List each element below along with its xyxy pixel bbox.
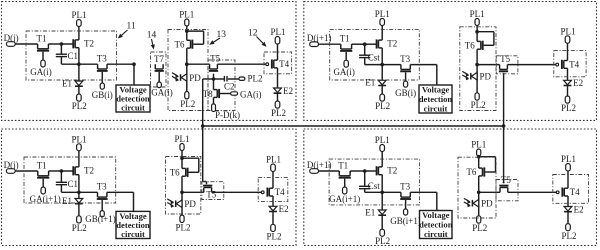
wire to voltage detection circuit <box>133 64 135 85</box>
wire <box>381 26 383 41</box>
wire rail from T5 to T4 gate <box>508 191 556 193</box>
terminal PL2 below E2 (Q1 top-left) <box>271 101 286 118</box>
svg-text:P-D(k): P-D(k) <box>215 110 240 120</box>
svg-text:PL2: PL2 <box>561 103 576 113</box>
terminal GA Q1 top-left <box>30 60 52 77</box>
terminal PL2 below E2 (Q4 bottom-right) <box>561 224 576 241</box>
terminal PL2 below PD (Q1 top-left) <box>180 92 195 109</box>
transistor T6 diode-connected (Q4 bottom-right) <box>466 157 495 193</box>
svg-text:circuit: circuit <box>424 103 448 113</box>
svg-text:GB(i+1): GB(i+1) <box>85 214 116 224</box>
wire <box>381 175 383 193</box>
dashed box T4 output unit (Q2 top-right) <box>554 51 586 77</box>
node D data input D(j+1) (Q4 bottom-right) <box>307 160 332 174</box>
wire <box>78 48 80 64</box>
svg-text:PL2: PL2 <box>72 101 87 111</box>
power terminal PL1 above T6 (Q2 top-right) <box>470 9 485 26</box>
svg-text:PL2: PL2 <box>375 236 390 246</box>
wire rail between PD node and T5 <box>479 191 500 193</box>
transistor T1 (Q2 top-right) <box>340 34 353 61</box>
svg-text:T6: T6 <box>466 167 476 177</box>
wire bottom rail <box>61 191 97 193</box>
transistor T6 diode-connected (Q1 top-left) <box>175 31 204 64</box>
node T6/PD junction on rail <box>180 191 184 195</box>
svg-text:PD: PD <box>480 72 492 82</box>
svg-text:T4: T4 <box>279 59 289 69</box>
callout label 13 <box>209 30 226 45</box>
capacitor C1 (Q3 bottom-left) <box>56 171 78 192</box>
svg-text:E2: E2 <box>279 204 289 214</box>
dashed box T7 unit 14 (Q1) <box>151 52 167 87</box>
voltage detection circuit box (Q1 top-left) <box>116 85 150 112</box>
terminal PL2 below E2 (Q3 bottom-left) <box>266 224 281 241</box>
svg-text:PL1: PL1 <box>270 27 285 37</box>
svg-text:PL2: PL2 <box>561 231 576 241</box>
transistor T3 (Q2 top-right) <box>400 54 411 81</box>
node T2 drain junction <box>77 62 81 66</box>
svg-text:GA(i): GA(i) <box>240 89 262 99</box>
wire bottom rail <box>61 63 97 65</box>
wire <box>478 155 480 158</box>
terminal PL2 below E1 (Q4 bottom-right) <box>375 229 390 246</box>
wire rail from T5 to T4 gate <box>507 64 555 66</box>
power terminal PL1 above T4 (Q3 bottom-left) <box>266 155 281 172</box>
wire <box>49 170 62 172</box>
svg-text:Cst: Cst <box>368 181 381 191</box>
svg-text:T8: T8 <box>203 89 213 99</box>
light-emitting diode E2 (Q2 top-right) <box>564 68 584 96</box>
node D data input D(j+1) (Q2 top-right) <box>307 33 332 47</box>
light-emitting diode E2 (Q4 bottom-right) <box>564 196 584 224</box>
wire rail between PD node and T5 <box>477 64 500 66</box>
quadrant border pixel cell (i,j) <box>2 2 297 121</box>
node T6/PD junction on rail <box>477 191 481 195</box>
node T6/PD junction on rail <box>475 63 479 67</box>
dashed box T5 readout unit (Q1 top-left) <box>208 60 235 111</box>
dashed box sensor unit (Q3 bottom-left) <box>166 157 201 215</box>
svg-text:E1: E1 <box>365 78 375 88</box>
wire <box>15 170 38 172</box>
transistor T2 (Q1 top-left) <box>73 38 94 48</box>
node T2 drain junction <box>380 63 384 67</box>
terminal GB Q2 top-right <box>395 81 416 98</box>
dashed box pixel driving unit (Q3 bottom-left) <box>24 157 116 203</box>
svg-text:GA(i): GA(i) <box>30 67 52 77</box>
voltage detection circuit box (Q2 top-right) <box>419 85 452 113</box>
svg-text:PL2: PL2 <box>248 73 263 83</box>
dashed box T4 output unit (Q3 bottom-left) <box>258 177 288 201</box>
power terminal PL1 above T4 (Q4 bottom-right) <box>561 154 576 171</box>
transistor T5 (Q2 top-right) <box>499 54 511 72</box>
svg-text:GA(i): GA(i) <box>151 87 173 97</box>
power terminal PL1 above T4 (Q1 top-left) <box>270 27 285 44</box>
wire vertical line row to Q4 T5 gate <box>503 126 505 183</box>
terminal P-D(k) (Q1) <box>212 104 240 120</box>
transistor T2 (Q3 bottom-left) <box>73 165 94 175</box>
svg-text:PL2: PL2 <box>175 223 190 233</box>
power terminal PL1 above T2 (Q3 bottom-left) <box>71 134 86 151</box>
wire sensing node left branch <box>203 78 214 80</box>
terminal GA Q3 bottom-left <box>30 187 61 204</box>
node T6 drain <box>180 156 184 160</box>
wire <box>277 44 279 60</box>
transistor T2 (Q4 bottom-right) <box>377 165 398 175</box>
transistor T5 gate-up (Q4 bottom-right) <box>499 175 511 193</box>
terminal GB Q1 top-left <box>92 83 113 100</box>
transistor T4 (Q2 top-right) <box>562 59 580 69</box>
dashed box sensor unit (Q4 bottom-right) <box>458 157 496 218</box>
terminal GB Q4 bottom-right <box>390 209 421 226</box>
svg-text:11: 11 <box>127 22 136 32</box>
wire <box>272 172 274 189</box>
svg-text:PL1: PL1 <box>179 10 194 20</box>
node gate of T2 / C storage <box>363 169 367 173</box>
svg-text:T5: T5 <box>210 53 220 63</box>
svg-text:GA(i+1): GA(i+1) <box>30 194 61 204</box>
svg-text:GB(i): GB(i) <box>92 90 113 100</box>
svg-text:PL1: PL1 <box>174 134 189 144</box>
gate circle of T4 (Q1 top-left) <box>266 63 269 66</box>
svg-text:PL2: PL2 <box>266 232 281 242</box>
svg-text:E1: E1 <box>62 196 72 206</box>
svg-text:D(j+1): D(j+1) <box>307 160 332 170</box>
wire rail from T5 to T4 gate <box>212 191 262 193</box>
light-emitting diode E1 (Q2 top-right) <box>365 65 386 94</box>
transistor T4 (Q1 top-left) <box>272 59 290 69</box>
wire bottom rail <box>365 64 401 66</box>
wire <box>365 43 377 45</box>
transistor T1 (Q1 top-left) <box>37 33 50 60</box>
wire <box>181 151 183 159</box>
node T2 drain junction <box>77 191 81 195</box>
wire <box>352 43 365 45</box>
dashed box pixel driving unit (Q2 top-right) <box>330 29 420 80</box>
capacitor C1 (Q1 top-left) <box>56 44 78 64</box>
wire <box>78 151 80 167</box>
wire <box>319 43 341 45</box>
terminal PL2 below PD (Q3 bottom-left) <box>175 215 190 232</box>
terminal GA Q4 bottom-right <box>329 187 360 204</box>
svg-text:PL1: PL1 <box>471 140 486 150</box>
node D data input D(j) (Q1 top-left) <box>4 33 19 47</box>
node T6 drain <box>475 30 479 34</box>
dashed box T4 output unit (Q1 top-left) <box>264 52 292 74</box>
transistor T6 diode-connected (Q3 bottom-left) <box>170 158 199 192</box>
wire <box>78 27 80 40</box>
transistor T3 (Q1 top-left) <box>97 54 108 83</box>
power terminal PL1 above T2 (Q1 top-left) <box>71 10 86 27</box>
gate circle of T4 (Q2 top-right) <box>556 63 559 66</box>
svg-text:GB(i+1): GB(i+1) <box>390 216 421 226</box>
terminal GA(i) right of T8 (Q1) <box>231 89 262 99</box>
wire vertical P-D(k) line upper <box>202 79 204 126</box>
svg-text:C1: C1 <box>68 51 79 61</box>
svg-text:PL1: PL1 <box>71 10 86 20</box>
svg-text:T6: T6 <box>175 39 185 49</box>
wire to voltage detection circuit <box>436 192 438 210</box>
wire <box>567 43 569 60</box>
svg-text:E2: E2 <box>573 78 583 88</box>
svg-text:PL1: PL1 <box>375 135 390 145</box>
node gate of T2 / C storage <box>60 169 64 173</box>
node gate of T2 / C storage <box>363 42 367 46</box>
svg-text:T2: T2 <box>387 165 397 175</box>
dashed box T5 readout unit (Q4 bottom-right) <box>496 180 518 201</box>
transistor T5 gate-up (Q3 bottom-left) <box>203 186 217 200</box>
svg-text:circuit: circuit <box>121 229 145 239</box>
capacitor C2 (Q1) <box>214 76 239 92</box>
svg-text:T3: T3 <box>97 182 107 192</box>
wire <box>78 175 80 193</box>
transistor T1 (Q3 bottom-left) <box>37 160 50 187</box>
wire <box>350 170 365 172</box>
node P-D(k) row junction right <box>502 124 506 128</box>
transistor T7 (Q1) <box>154 54 164 82</box>
svg-text:T4: T4 <box>275 187 285 197</box>
callout label 11 <box>118 22 136 39</box>
light-emitting diode E1 (Q3 bottom-left) <box>62 192 83 216</box>
photodiode PD (Q3 bottom-left) <box>167 192 196 215</box>
svg-text:13: 13 <box>217 30 227 40</box>
terminal PL2 below PD (Q4 bottom-right) <box>472 216 487 233</box>
svg-text:Cst: Cst <box>368 53 381 63</box>
svg-text:PL2: PL2 <box>180 99 195 109</box>
svg-text:PD: PD <box>481 199 493 209</box>
light-emitting diode E2 (Q3 bottom-left) <box>269 196 289 224</box>
wire <box>186 26 188 31</box>
light-emitting diode E2 (Q1 top-left) <box>274 68 294 101</box>
dashed box T5 readout unit (Q2 top-right) <box>496 56 518 74</box>
terminal PL2 below E1 (Q2 top-right) <box>375 94 390 111</box>
capacitor Cst (Q2 top-right) <box>359 44 380 64</box>
photodiode PD (Q2 top-right) <box>462 65 491 93</box>
terminal PL2 below E2 (Q2 top-right) <box>561 96 576 113</box>
terminal PL2 below E1 (Q1 top-left) <box>72 94 87 111</box>
light-emitting diode E1 (Q1 top-left) <box>62 64 83 94</box>
gate circle of T4 (Q4 bottom-right) <box>556 191 559 194</box>
svg-text:PD: PD <box>184 199 196 209</box>
dashed box T4 output unit (Q4 bottom-right) <box>553 175 589 204</box>
node T5 gate sensing node (Q1) <box>212 74 216 81</box>
svg-text:PD: PD <box>189 73 201 83</box>
quadrant border pixel cell (i+1,j) <box>2 129 297 246</box>
voltage detection circuit box (Q4 bottom-right) <box>420 211 453 239</box>
wire rail from T5 to T4 gate <box>217 63 265 65</box>
svg-text:T1: T1 <box>340 34 350 44</box>
dashed box pixel driving unit (Q4 bottom-right) <box>329 159 419 205</box>
svg-text:T3: T3 <box>400 182 410 192</box>
svg-text:PL2: PL2 <box>72 223 87 233</box>
svg-text:PL2: PL2 <box>375 101 390 111</box>
svg-text:PL2: PL2 <box>471 100 486 110</box>
wire <box>365 170 377 172</box>
svg-text:E2: E2 <box>283 86 293 96</box>
wire bottom rail <box>365 191 401 193</box>
wire vertical line Q2 T5 gate to row <box>503 73 505 126</box>
transistor T5 (Q1 top-left) <box>209 53 221 71</box>
svg-text:PL1: PL1 <box>266 155 281 165</box>
wire <box>476 26 478 32</box>
power terminal PL1 above T6 (Q3 bottom-left) <box>174 134 189 151</box>
svg-text:T2: T2 <box>84 165 94 175</box>
wire <box>381 152 383 167</box>
photodiode PD (Q1 top-left) <box>172 64 201 91</box>
node T6/PD junction on rail <box>185 62 189 66</box>
wire <box>381 48 383 65</box>
dashed box sensor unit (Q2 top-right) <box>460 27 496 111</box>
wire <box>15 43 37 45</box>
power terminal PL1 above T6 (Q4 bottom-right) <box>471 140 486 157</box>
svg-text:PL1: PL1 <box>561 154 576 164</box>
quadrant border pixel cell (i,j+1) <box>304 2 597 121</box>
power terminal PL1 above T2 (Q2 top-right) <box>375 9 390 26</box>
wire horizontal P-D(k) row line <box>203 125 504 127</box>
node T2 drain junction <box>380 191 384 195</box>
photodiode PD (Q4 bottom-right) <box>464 192 493 216</box>
node gate of T2 / C storage <box>60 42 64 46</box>
svg-text:T4: T4 <box>569 59 579 69</box>
svg-text:GA(i+1): GA(i+1) <box>329 194 360 204</box>
wire vertical P-D(k) line to Q3 T5 gate <box>203 126 207 184</box>
svg-text:T4: T4 <box>570 187 580 197</box>
wire to voltage detection circuit <box>436 65 438 85</box>
node P-D(k) row junction left <box>201 124 205 128</box>
svg-text:T2: T2 <box>84 38 94 48</box>
terminal PL2 right of C2 (Q1) <box>239 73 263 83</box>
svg-text:circuit: circuit <box>121 102 145 112</box>
svg-text:D(j+1): D(j+1) <box>307 33 332 43</box>
voltage detection circuit box (Q3 bottom-left) <box>116 211 150 238</box>
light-emitting diode E1 (Q4 bottom-right) <box>365 192 386 229</box>
terminal GA Q2 top-right <box>333 60 355 77</box>
wire to voltage detection circuit <box>133 192 135 211</box>
svg-text:C2: C2 <box>224 82 235 92</box>
wire <box>107 63 134 65</box>
dashed box sensor unit (Q1 top-left) <box>168 30 208 111</box>
svg-text:circuit: circuit <box>424 229 448 239</box>
svg-text:PL1: PL1 <box>470 9 485 19</box>
node T6 drain <box>477 155 481 159</box>
wire rail between PD node and T5 <box>182 191 204 193</box>
node D data input D(j) (Q3 bottom-left) <box>4 160 19 174</box>
wire <box>410 191 437 193</box>
capacitor Cst (Q4 bottom-right) <box>359 171 380 192</box>
transistor T4 (Q3 bottom-left) <box>267 187 285 197</box>
transistor T3 (Q3 bottom-left) <box>97 182 108 211</box>
callout label 12 <box>248 29 267 47</box>
svg-text:GB(i): GB(i) <box>395 88 416 98</box>
power terminal PL1 above T6 (Q1 top-left) <box>179 10 194 27</box>
dashed box pixel driving unit (Q1 top-left) <box>26 31 117 80</box>
wire <box>61 43 73 45</box>
wire <box>567 171 569 188</box>
transistor T1 (Q4 bottom-right) <box>338 160 351 187</box>
svg-text:PL1: PL1 <box>560 26 575 36</box>
wire rail between PD node and T5 <box>187 63 210 65</box>
power terminal PL1 above T4 (Q2 top-right) <box>560 26 575 43</box>
node voltage-detect tap <box>132 62 136 66</box>
gate circle of T4 (Q3 bottom-left) <box>261 191 264 194</box>
wire <box>48 43 61 45</box>
wire <box>107 191 134 193</box>
svg-text:PL1: PL1 <box>375 9 390 19</box>
transistor T2 (Q2 top-right) <box>377 39 398 49</box>
wire <box>61 170 73 172</box>
svg-text:T3: T3 <box>97 54 107 64</box>
power terminal PL1 above T2 (Q4 bottom-right) <box>375 135 390 152</box>
svg-text:T6: T6 <box>465 41 475 51</box>
transistor T8 (Q1) <box>203 79 231 104</box>
terminal PL2 below PD (Q2 top-right) <box>471 93 486 110</box>
svg-text:T1: T1 <box>338 160 348 170</box>
wire <box>410 64 437 66</box>
terminal GA(i) below T7 (Q1) <box>151 82 173 97</box>
transistor T3 (Q4 bottom-right) <box>400 182 411 209</box>
dashed box T5 readout unit (Q3 bottom-left) <box>202 182 224 200</box>
wire <box>319 170 340 172</box>
svg-text:T5: T5 <box>500 54 510 64</box>
quadrant border pixel cell (i+1,j+1) <box>304 129 597 246</box>
svg-text:T3: T3 <box>400 54 410 64</box>
svg-text:T2: T2 <box>387 39 397 49</box>
svg-text:T7: T7 <box>154 54 164 64</box>
svg-text:GA(i): GA(i) <box>333 67 355 77</box>
svg-text:PL2: PL2 <box>271 108 286 118</box>
callout label 14 <box>147 31 157 50</box>
svg-text:E1: E1 <box>365 207 375 217</box>
transistor T6 diode-connected (Q2 top-right) <box>465 32 494 65</box>
svg-text:E2: E2 <box>574 204 584 214</box>
svg-text:C1: C1 <box>68 179 79 189</box>
svg-text:PL1: PL1 <box>71 134 86 144</box>
svg-text:T1: T1 <box>37 33 47 43</box>
transistor T4 (Q4 bottom-right) <box>562 187 580 197</box>
node T6 drain <box>185 29 189 33</box>
svg-text:PL2: PL2 <box>472 223 487 233</box>
svg-text:T6: T6 <box>170 168 180 178</box>
terminal PL2 below E1 (Q3 bottom-left) <box>72 216 87 233</box>
svg-text:T1: T1 <box>37 160 47 170</box>
terminal GB Q3 bottom-left <box>85 211 116 225</box>
